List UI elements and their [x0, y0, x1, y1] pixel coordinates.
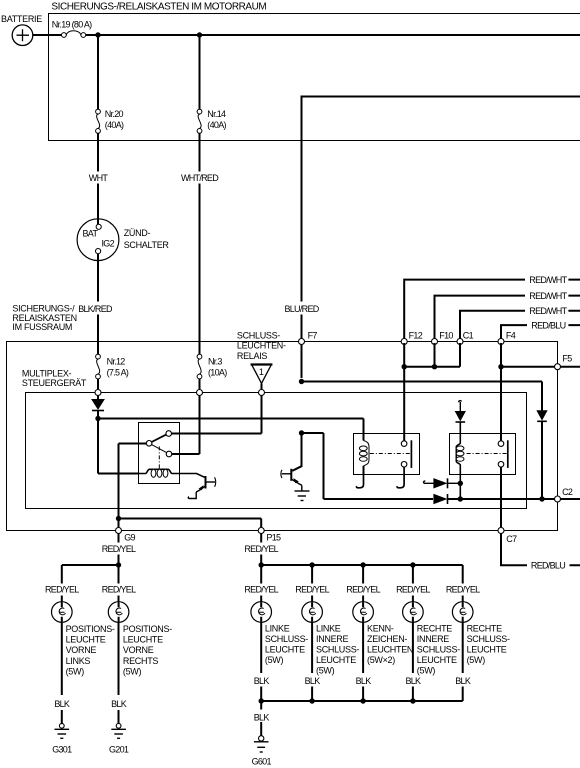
svg-text:LEUCHTE: LEUCHTE — [467, 645, 507, 655]
svg-text:(5W): (5W) — [66, 666, 85, 676]
svg-text:(5W): (5W) — [265, 655, 284, 665]
transistor Q1 — [188, 476, 215, 499]
connector C1 — [457, 339, 463, 345]
wire fuse20 drop — [97, 35, 99, 224]
svg-text:F5: F5 — [562, 354, 572, 364]
diode D3 right side — [537, 382, 547, 500]
tail light relay triangle symbol — [251, 365, 273, 384]
svg-text:RED/BLU: RED/BLU — [531, 321, 565, 331]
svg-text:RED/YEL: RED/YEL — [396, 585, 430, 595]
junction rear bus lamp6 — [410, 562, 415, 567]
fuse Nr.3 — [197, 354, 202, 389]
svg-text:BLK: BLK — [356, 676, 372, 686]
internal relay KL coil — [139, 469, 180, 477]
junction rear ground bus L6 — [410, 698, 415, 703]
junction battery bus / fuse 14 — [197, 32, 202, 37]
internal relay KL box — [139, 423, 180, 484]
svg-text:(7.5 A): (7.5 A) — [107, 367, 129, 377]
svg-text:SICHERUNGS-/RELAISKASTEN IM MO: SICHERUNGS-/RELAISKASTEN IM MOTORRAUM — [51, 1, 266, 12]
wire K1 contact pigtail — [397, 467, 404, 488]
wire bus D1 to relay K1 coil — [98, 419, 364, 434]
svg-text:LEUCHTE: LEUCHTE — [265, 645, 305, 655]
fuse Nr.20 — [96, 109, 101, 133]
wire G9 drop — [118, 534, 120, 566]
wire RED/BLU row 4 — [500, 325, 580, 340]
diode D5 on C2 bus — [434, 494, 448, 504]
svg-text:Nr.19 (80 A): Nr.19 (80 A) — [52, 20, 92, 30]
svg-text:RED/WHT: RED/WHT — [529, 291, 567, 301]
connector F10 — [432, 339, 438, 345]
svg-text:WHT: WHT — [89, 173, 109, 183]
connector mpx pin relay output — [259, 390, 265, 396]
svg-text:F10: F10 — [439, 331, 453, 341]
svg-text:Nr.12: Nr.12 — [107, 357, 126, 367]
svg-text:G9: G9 — [124, 533, 135, 543]
internal relay K1 coil — [359, 434, 369, 475]
svg-text:ZÜND-: ZÜND- — [124, 228, 151, 238]
svg-text:RED/YEL: RED/YEL — [244, 544, 278, 554]
svg-text:G201: G201 — [109, 744, 129, 754]
lamp L4 label — [316, 623, 359, 675]
fuse Nr.14 — [197, 109, 202, 133]
connector G9 — [116, 528, 122, 534]
svg-text:IM FUSSRAUM: IM FUSSRAUM — [12, 322, 72, 332]
junction rear bus lamp4 — [309, 562, 314, 567]
junction BLU/RED bus — [299, 379, 304, 384]
lamp L2 label — [123, 624, 172, 677]
svg-text:STEUERGERÄT: STEUERGERÄT — [22, 378, 87, 388]
battery B1 positive terminal — [12, 25, 33, 46]
wire F10 below connector — [434, 343, 436, 367]
svg-text:LINKE: LINKE — [265, 623, 290, 633]
wire BLU/RED branch junction — [299, 430, 304, 435]
svg-text:RED/YEL: RED/YEL — [446, 585, 480, 595]
svg-text:LEUCHTE: LEUCHTE — [316, 655, 356, 665]
wire P15 drop — [260, 534, 262, 566]
svg-text:RECHTE: RECHTE — [467, 623, 502, 633]
svg-text:(5W×2): (5W×2) — [367, 655, 395, 665]
ground symbol at Q2 emitter — [295, 491, 310, 501]
svg-text:RED/YEL: RED/YEL — [346, 585, 380, 595]
svg-text:C1: C1 — [463, 331, 474, 341]
svg-text:POSITIONS-: POSITIONS- — [123, 624, 172, 634]
svg-text:(5W): (5W) — [123, 666, 142, 676]
lamp L2 position front right: wire, label RED/YEL, bulb — [102, 565, 136, 724]
connector mpx pin mid (fuse 3) — [197, 390, 203, 396]
ground G301 — [52, 723, 72, 754]
svg-text:RED/YEL: RED/YEL — [45, 585, 79, 595]
wire F4 to F5 tie — [501, 366, 580, 368]
svg-text:(10A): (10A) — [208, 367, 227, 377]
wire RED/WHT row 2 — [434, 296, 580, 340]
svg-text:INNERE: INNERE — [417, 634, 450, 644]
connector C2 — [555, 496, 561, 502]
junction D4 / K2 coil — [458, 481, 463, 486]
wire KL common to G9 — [119, 444, 147, 528]
footwell fuse/relay box outline — [7, 342, 558, 531]
svg-text:BLK: BLK — [254, 712, 270, 722]
connector F7 — [299, 339, 305, 345]
svg-text:(5W): (5W) — [467, 655, 486, 665]
junction below diode D1 — [95, 416, 100, 421]
wire K2 coil to C2 bus — [459, 475, 461, 500]
wire F4 below connector to C7 — [500, 343, 502, 443]
wire tie F12-F10-C1 — [404, 366, 460, 368]
connector mpx pin left (fuse 12) — [95, 390, 101, 396]
svg-text:IG2: IG2 — [102, 239, 115, 249]
svg-text:VORNE: VORNE — [66, 645, 97, 655]
svg-text:BLK: BLK — [405, 676, 421, 686]
svg-text:BLK: BLK — [54, 699, 70, 709]
svg-text:F7: F7 — [308, 331, 318, 341]
internal relay K2 box — [450, 434, 516, 475]
wire coil out to transistor Q1 — [180, 474, 205, 478]
wire RED/WHT row 3 — [459, 311, 580, 340]
svg-text:BLU/RED: BLU/RED — [284, 304, 319, 314]
svg-text:C7: C7 — [506, 534, 517, 544]
svg-text:BLK: BLK — [455, 676, 471, 686]
svg-text:VORNE: VORNE — [123, 645, 154, 655]
internal relay KL contact — [146, 431, 172, 469]
svg-text:ZEICHEN-: ZEICHEN- — [367, 634, 407, 644]
svg-text:P15: P15 — [266, 533, 281, 543]
connector C7 — [498, 528, 504, 534]
svg-text:WHT/RED: WHT/RED — [181, 173, 219, 183]
lamp L1 label — [66, 624, 115, 677]
wire BLU/RED junction bus to diode D3 — [302, 381, 543, 383]
svg-text:LEUCHTE: LEUCHTE — [123, 635, 163, 645]
connector F5 — [555, 364, 561, 370]
svg-text:RED/YEL: RED/YEL — [244, 585, 278, 595]
wire F12 below connector — [403, 343, 405, 443]
diode D1 (below fuse 12 pin) — [92, 395, 104, 418]
junction G9 bus — [116, 516, 121, 521]
wire C2 bus right portion — [448, 498, 580, 500]
lamp L5 license plate: wire, label RED/YEL, bulb — [346, 565, 380, 701]
svg-text:BLK: BLK — [305, 676, 321, 686]
svg-text:C2: C2 — [562, 487, 573, 497]
svg-text:Nr.3: Nr.3 — [208, 357, 222, 367]
junction rear bus P15 — [259, 562, 264, 567]
internal relay K1 box — [354, 434, 420, 475]
junction F12 tie — [402, 364, 407, 369]
engine compartment fuse/relay box outline — [49, 14, 580, 141]
svg-text:SCHLUSS-: SCHLUSS- — [316, 645, 359, 655]
svg-text:RED/YEL: RED/YEL — [102, 544, 136, 554]
wire bus right of BLU/RED corner — [301, 96, 580, 98]
svg-text:G601: G601 — [252, 756, 272, 766]
svg-text:F12: F12 — [409, 331, 423, 341]
lamp L7 label — [467, 623, 510, 665]
junction rear ground bus L4 — [309, 698, 314, 703]
svg-text:LINKE: LINKE — [316, 623, 341, 633]
lamp L1 position front left: wire, label RED/YEL, bulb — [45, 565, 79, 724]
svg-text:LEUCHTEN-: LEUCHTEN- — [237, 341, 286, 351]
wire relay triangle output — [261, 383, 263, 389]
svg-text:(40A): (40A) — [207, 120, 226, 130]
svg-text:RECHTE: RECHTE — [417, 623, 452, 633]
wire C1 below connector — [459, 343, 461, 367]
svg-text:SCHALTER: SCHALTER — [124, 240, 170, 250]
wire fuse12 net down to coil feed — [98, 419, 139, 474]
wire BLU/RED bus from engine box — [301, 98, 303, 379]
svg-text:SCHLUSS-: SCHLUSS- — [467, 634, 510, 644]
svg-text:BLK/RED: BLK/RED — [78, 304, 113, 314]
svg-text:RED/WHT: RED/WHT — [529, 275, 567, 285]
wire K2 contact down to C7 — [500, 467, 502, 527]
lamp L7 right tail: wire, label RED/YEL, bulb — [446, 565, 480, 701]
wire BLU/RED to transistor Q2 — [292, 433, 301, 471]
svg-text:BAT: BAT — [83, 229, 99, 239]
multiplex control unit box outline — [26, 393, 527, 509]
svg-text:SCHLUSS-: SCHLUSS- — [417, 645, 460, 655]
svg-text:(40A): (40A) — [105, 120, 124, 130]
svg-text:SCHLUSS-: SCHLUSS- — [265, 634, 308, 644]
svg-text:BLK: BLK — [111, 699, 127, 709]
internal relay K2 coil — [456, 433, 464, 475]
lamp L3 label — [265, 623, 308, 665]
lamp L6 label — [417, 623, 460, 675]
internal relay K2 contact — [467, 440, 508, 468]
transistor Q2 — [281, 469, 302, 491]
svg-text:(5W): (5W) — [417, 666, 436, 676]
svg-text:LEUCHTE: LEUCHTE — [417, 655, 457, 665]
wire battery bus — [33, 34, 580, 36]
ground G601 — [252, 736, 272, 767]
wire C7 to RED/BLU exit — [501, 534, 580, 566]
ignition switch ZUND-SCHALTER — [77, 219, 119, 262]
svg-text:RED/YEL: RED/YEL — [295, 585, 329, 595]
lamp L6 right inner tail: wire, label RED/YEL, bulb — [396, 565, 430, 701]
wire KL top contact to relay pin — [172, 395, 262, 433]
svg-text:(5W): (5W) — [316, 666, 335, 676]
junction rear ground bus L5 — [360, 698, 365, 703]
svg-text:LEUCHTE: LEUCHTE — [66, 635, 106, 645]
svg-text:RECHTS: RECHTS — [123, 656, 158, 666]
junction battery bus / fuse 20 — [95, 32, 100, 37]
junction K2 coil / C2 bus — [458, 496, 463, 501]
svg-text:RED/YEL: RED/YEL — [102, 585, 136, 595]
svg-text:BATTERIE: BATTERIE — [1, 14, 42, 24]
fuse Nr.19 (80 A) — [62, 31, 86, 38]
wire BLK/RED from ignition to fuse box — [97, 254, 99, 355]
svg-text:LINKS: LINKS — [66, 656, 91, 666]
junction rear ground bus L3 — [259, 698, 264, 703]
svg-text:G301: G301 — [52, 744, 72, 754]
wire front lamp bus — [62, 564, 119, 566]
lamp L5 label — [367, 623, 413, 665]
wire rear ground bus — [261, 700, 463, 702]
svg-text:RED/WHT: RED/WHT — [529, 306, 567, 316]
svg-text:LEUCHTEN: LEUCHTEN — [367, 645, 413, 655]
junction D3 / C2 bus — [539, 496, 544, 501]
svg-text:1: 1 — [259, 367, 264, 377]
svg-text:INNERE: INNERE — [316, 634, 349, 644]
junction front lamp bus — [116, 562, 121, 567]
wire branch to C2 bus — [302, 433, 434, 499]
wire K1 coil pigtail — [357, 475, 364, 488]
internal relay K1 contact — [370, 440, 412, 468]
fuse Nr.12 — [96, 342, 101, 390]
junction F10 tie — [432, 364, 437, 369]
junction rear bus lamp5 — [360, 562, 365, 567]
svg-text:RED/BLU: RED/BLU — [531, 561, 565, 571]
connector F4 — [498, 339, 504, 345]
lamp L3 left tail: wire, label RED/YEL, bulb — [244, 565, 278, 701]
diode D4 pigtail row — [424, 478, 461, 488]
svg-text:POSITIONS-: POSITIONS- — [66, 624, 115, 634]
ground G201 — [109, 723, 129, 754]
wire rear lamp bus — [261, 564, 463, 566]
wire G9 to P15 bus — [119, 519, 262, 528]
svg-text:Nr.20: Nr.20 — [105, 109, 124, 119]
svg-text:BLK: BLK — [254, 676, 270, 686]
svg-text:F4: F4 — [506, 331, 516, 341]
lamp L4 left inner tail: wire, label RED/YEL, bulb — [295, 565, 329, 701]
wire KL bottom contact to fuse 3 pin — [172, 395, 200, 454]
svg-text:RELAIS: RELAIS — [237, 351, 268, 361]
diode D2 above relay K2 coil — [456, 401, 466, 434]
connector F12 — [401, 339, 407, 345]
connector P15 — [258, 528, 264, 534]
svg-text:KENN-: KENN- — [367, 623, 394, 633]
svg-text:Nr.14: Nr.14 — [207, 109, 226, 119]
junction F4 tie — [498, 364, 503, 369]
wire ground bus to G601 — [260, 701, 262, 736]
wire fuse14 drop — [199, 35, 201, 356]
svg-text:SCHLUSS-: SCHLUSS- — [237, 330, 280, 340]
wire RED/WHT row 1 — [403, 280, 580, 340]
